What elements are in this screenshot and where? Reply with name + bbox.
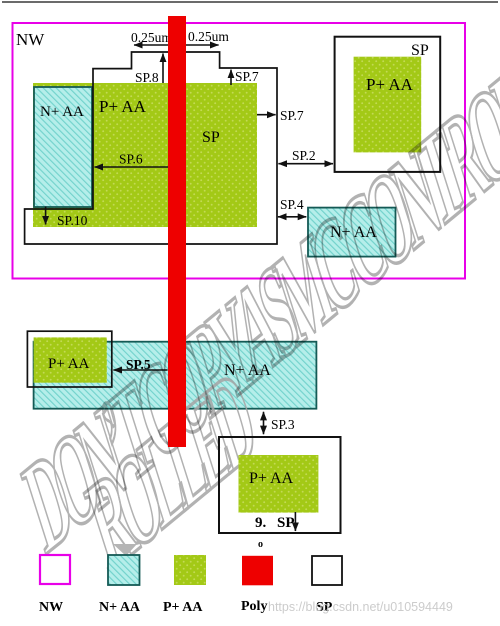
dim arrow left (134, 44, 168, 46)
svg-text:SP.7: SP.7 (280, 108, 304, 123)
svg-text:https://blog.csdn.net/u0105944: https://blog.csdn.net/u010594449 (268, 600, 453, 614)
svg-text:0.25um: 0.25um (188, 29, 229, 44)
SP.6 arrow (95, 166, 172, 168)
svg-text:P+ AA: P+ AA (366, 75, 414, 94)
svg-text:SP: SP (202, 129, 220, 146)
legend SP square (312, 556, 342, 585)
P+ AA main region (33, 83, 257, 227)
watermark second line tail (74, 342, 268, 600)
N+ AA long bar (34, 342, 317, 409)
SP.4 arrow (278, 216, 306, 218)
dim arrow right (186, 44, 219, 46)
svg-text:N+ AA: N+ AA (99, 600, 141, 615)
P+ AA in SP box (354, 57, 422, 153)
svg-text:P+ AA: P+ AA (163, 600, 203, 615)
bottom down arrow (294, 512, 296, 531)
SP.5 arrow (113, 369, 167, 371)
N+ AA small box (308, 208, 396, 257)
svg-text:NW: NW (39, 600, 63, 615)
svg-text:SP.7: SP.7 (235, 69, 259, 84)
SP box top right (335, 37, 441, 172)
poly gate bar (168, 16, 186, 447)
legend NW square (40, 555, 70, 584)
legend Poly square (242, 556, 273, 586)
P+ AA middle-left (34, 337, 107, 382)
svg-text:P+ AA: P+ AA (249, 470, 294, 487)
bottom SP box (219, 437, 341, 533)
SP stepped outline (25, 52, 277, 244)
black box around P+ AA (middle left) (27, 331, 111, 387)
SP.7 right arrow (257, 114, 276, 116)
svg-text:Poly: Poly (241, 599, 267, 614)
SP.10 arrow (45, 207, 47, 225)
watermark remnant triangle (113, 544, 137, 556)
SP.7 top arrow (230, 70, 232, 85)
svg-text:SP.8: SP.8 (135, 70, 159, 85)
SP.2 arrow (278, 163, 333, 165)
svg-text:SP: SP (277, 515, 295, 531)
svg-text:SP: SP (411, 42, 429, 59)
SP.8 arrow (162, 54, 164, 84)
svg-text:SP.10: SP.10 (57, 213, 88, 228)
svg-text:P+ AA: P+ AA (99, 97, 147, 116)
svg-text:N+ AA: N+ AA (40, 104, 84, 120)
NW well boundary (13, 23, 466, 279)
svg-text:SP.2: SP.2 (292, 148, 316, 163)
svg-text:P+ AA: P+ AA (48, 356, 90, 372)
svg-text:SP.6: SP.6 (119, 152, 143, 167)
svg-text:NW: NW (16, 30, 45, 49)
top border line (2, 1, 498, 3)
N+ AA main region (34, 87, 92, 207)
svg-text:o: o (258, 539, 263, 550)
svg-text:SP.3: SP.3 (271, 417, 295, 432)
legend N+AA square (108, 555, 140, 585)
legend P+AA square (174, 555, 206, 585)
P+ AA bottom (239, 455, 319, 513)
svg-text:9.: 9. (255, 515, 267, 531)
svg-text:0.25um: 0.25um (131, 30, 172, 45)
SP.3 arrow (263, 412, 265, 434)
